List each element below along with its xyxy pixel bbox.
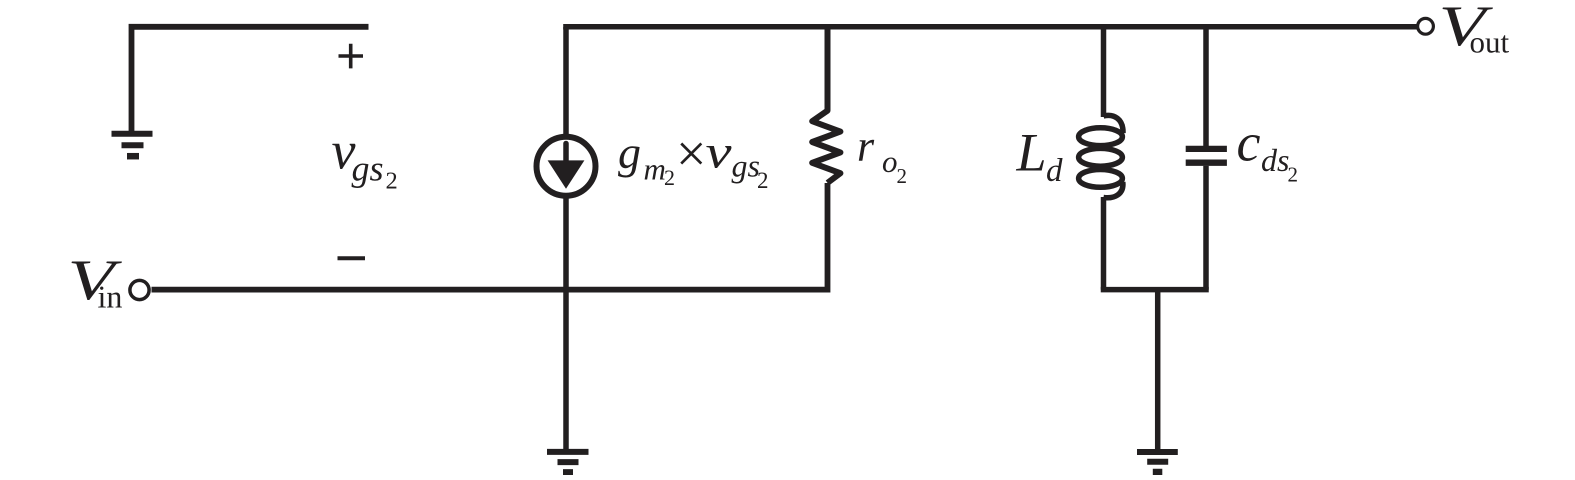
svg-text:m: m (644, 152, 666, 187)
svg-text:gs: gs (732, 148, 760, 184)
svg-text:×: × (676, 124, 706, 184)
svg-text:2: 2 (1288, 163, 1299, 187)
svg-text:in: in (98, 279, 123, 315)
svg-text:out: out (1470, 24, 1510, 59)
svg-text:ds: ds (1261, 142, 1289, 178)
svg-text:L: L (1016, 123, 1047, 183)
svg-text:2: 2 (757, 168, 769, 193)
svg-text:2: 2 (386, 168, 398, 195)
svg-text:2: 2 (897, 164, 908, 188)
svg-text:gs: gs (352, 149, 384, 189)
svg-text:r: r (857, 122, 875, 171)
svg-text:c: c (1237, 113, 1261, 173)
svg-text:o: o (882, 144, 898, 179)
svg-text:g: g (618, 127, 641, 178)
svg-text:v: v (706, 127, 732, 179)
svg-text:d: d (1046, 153, 1063, 189)
svg-text:2: 2 (664, 165, 675, 190)
